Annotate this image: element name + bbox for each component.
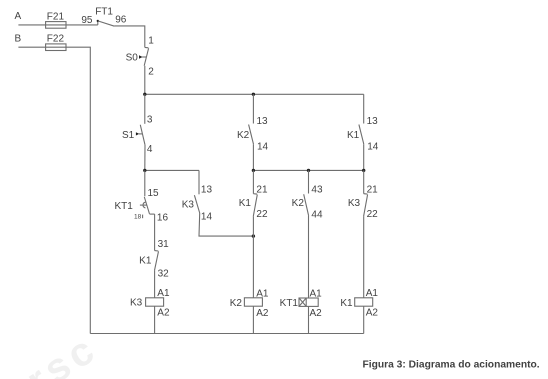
junction <box>252 169 255 172</box>
wire K2 contact to bus 2 <box>252 144 254 170</box>
wire bus to K2 contact <box>252 94 254 123</box>
wire phase B down left side <box>18 47 90 333</box>
junction <box>252 93 255 96</box>
wire bus 2 to K1 21-22 <box>252 170 254 193</box>
wire coil K3 to rail <box>154 306 156 333</box>
contact K1 13-14 (NO) <box>347 116 379 153</box>
wire phase A to FT1 <box>18 24 97 26</box>
wire bus to K1 contact <box>363 94 365 123</box>
wire coil K2 to rail <box>252 306 254 333</box>
figure caption <box>363 359 540 370</box>
wire bus 2 to K3 21-22 <box>363 170 365 193</box>
bottom rail <box>90 333 363 335</box>
wire K1 21-22 to coil K2 <box>252 216 254 297</box>
wire FT1 to S0 <box>114 26 144 48</box>
node A <box>15 11 22 22</box>
top bus <box>145 93 364 95</box>
junction <box>362 169 365 172</box>
wire bus 2 to K3 13-14 <box>198 170 200 194</box>
pushbutton S1 (NO) 3-4 <box>122 115 153 156</box>
fuse F22 <box>46 34 66 51</box>
contact K3 21-22 (NC) <box>348 184 378 220</box>
node B <box>15 33 22 44</box>
junction <box>143 93 146 96</box>
wire S1 to bus 2 <box>144 145 146 171</box>
junction <box>252 234 255 237</box>
wire coil K1 to rail <box>363 306 365 333</box>
bus 2 right segment <box>253 169 363 171</box>
pushbutton S0 (NC) 1-2 <box>126 35 155 77</box>
wire K1 31-32 to coil K3 <box>154 270 156 297</box>
contact K2 43-44 (NO) <box>292 184 323 220</box>
thermal overload contact FT1 95-96 <box>81 7 126 27</box>
svg-text:rsc: rsc <box>19 326 106 379</box>
contact K1 31-32 (NC) <box>139 239 169 279</box>
wire bus 2 to KT1 contact <box>144 170 146 196</box>
contact K3 13-14 (NO) <box>182 184 213 222</box>
junction <box>143 169 146 172</box>
wire S0 to top bus <box>144 66 146 95</box>
wire coil KT1 to rail <box>308 306 310 333</box>
wire K1 contact to bus 2 <box>363 144 365 170</box>
wire bus to S1 <box>144 94 146 124</box>
coil K3 <box>130 288 170 318</box>
contact K1 21-22 (NC) <box>239 184 268 220</box>
bus 2 left segment <box>145 169 199 171</box>
wire K3 13-14 down <box>199 213 253 236</box>
wire K2 43-44 to coil KT1 <box>308 216 310 298</box>
coil K1 <box>340 288 378 318</box>
fuse F21 <box>46 11 66 28</box>
timed changeover contact KT1 15-16-18 <box>114 188 168 223</box>
wire bus 2 to K2 43-44 <box>308 170 310 193</box>
junction <box>307 169 310 172</box>
wire KT1 to K1 31-32 <box>154 214 156 251</box>
wire K3 21-22 to coil K1 <box>363 216 365 297</box>
coil KT1 (timer) <box>280 288 323 318</box>
contact K2 13-14 (NO) <box>237 116 269 153</box>
coil K2 <box>230 288 269 318</box>
